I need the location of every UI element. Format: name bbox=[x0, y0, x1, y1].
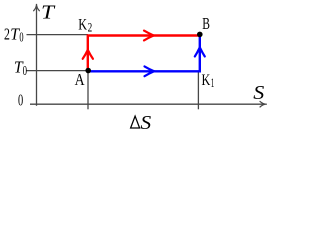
svg-text:A: A bbox=[75, 70, 85, 89]
svg-text:S: S bbox=[140, 113, 151, 134]
svg-text:T: T bbox=[41, 1, 56, 23]
svg-text:K: K bbox=[78, 16, 87, 33]
svg-text:S: S bbox=[253, 83, 264, 104]
svg-text:2: 2 bbox=[88, 20, 93, 35]
svg-text:0: 0 bbox=[18, 90, 23, 109]
svg-text:0: 0 bbox=[19, 29, 23, 44]
svg-text:1: 1 bbox=[211, 75, 215, 90]
svg-text:K: K bbox=[202, 72, 211, 89]
svg-text:B: B bbox=[202, 14, 210, 33]
svg-text:0: 0 bbox=[23, 63, 28, 78]
svg-text:2: 2 bbox=[4, 25, 10, 44]
